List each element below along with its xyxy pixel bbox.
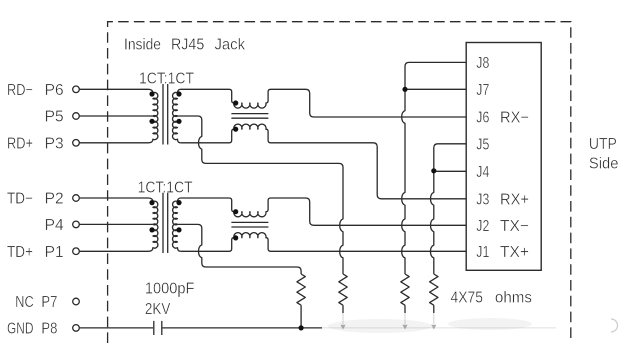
- svg-text:1000pF: 1000pF: [145, 281, 195, 298]
- svg-text:1CT:1CT: 1CT:1CT: [139, 71, 194, 88]
- svg-text:Inside: Inside: [124, 36, 161, 53]
- svg-text:J6: J6: [476, 110, 489, 127]
- svg-text:P7: P7: [41, 294, 57, 311]
- svg-text:P8: P8: [41, 321, 57, 338]
- svg-text:RX−: RX−: [500, 110, 529, 127]
- svg-text:ohms: ohms: [495, 290, 532, 307]
- svg-text:4X75: 4X75: [451, 290, 484, 307]
- svg-text:Side: Side: [589, 155, 619, 172]
- svg-text:J4: J4: [476, 164, 489, 181]
- svg-text:TX−: TX−: [500, 218, 529, 235]
- svg-text:J3: J3: [476, 192, 489, 209]
- svg-text:P4: P4: [45, 217, 64, 234]
- svg-text:Jack: Jack: [215, 36, 246, 53]
- svg-text:J2: J2: [476, 218, 489, 235]
- svg-text:P6: P6: [45, 82, 64, 99]
- svg-text:TX+: TX+: [500, 244, 529, 261]
- svg-text:P2: P2: [45, 191, 64, 208]
- svg-text:RJ45: RJ45: [171, 36, 204, 53]
- svg-text:GND: GND: [7, 321, 34, 338]
- svg-text:TD+: TD+: [7, 244, 33, 261]
- svg-text:J1: J1: [476, 244, 489, 261]
- svg-text:NC: NC: [15, 294, 34, 311]
- svg-text:P3: P3: [45, 136, 64, 153]
- svg-text:1CT:1CT: 1CT:1CT: [138, 180, 193, 197]
- svg-text:J5: J5: [476, 137, 489, 154]
- svg-text:TD−: TD−: [7, 191, 33, 208]
- svg-text:J7: J7: [476, 82, 489, 99]
- svg-text:UTP: UTP: [589, 136, 617, 153]
- svg-text:J8: J8: [476, 55, 489, 72]
- svg-text:RD+: RD+: [7, 136, 33, 153]
- svg-text:RX+: RX+: [500, 192, 529, 209]
- svg-text:P1: P1: [45, 244, 64, 261]
- svg-text:RD−: RD−: [7, 82, 33, 99]
- svg-text:2KV: 2KV: [145, 301, 171, 318]
- svg-text:P5: P5: [45, 109, 64, 126]
